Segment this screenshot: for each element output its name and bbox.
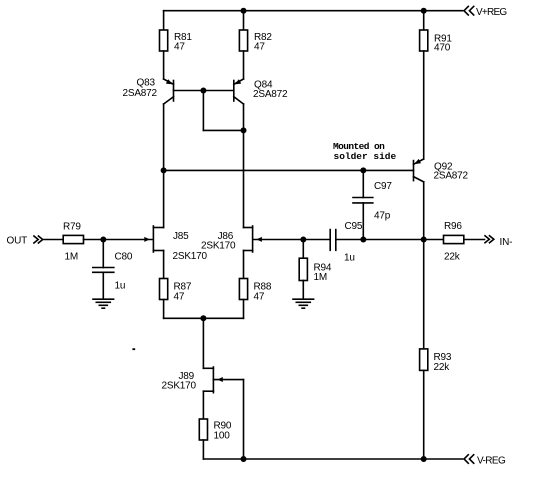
svg-text:22k: 22k <box>444 252 461 263</box>
svg-text:47p: 47p <box>374 211 391 222</box>
svg-text:C80: C80 <box>115 252 133 263</box>
svg-text:470: 470 <box>434 43 451 54</box>
svg-text:V-REG: V-REG <box>477 456 506 467</box>
svg-text:47: 47 <box>254 292 265 303</box>
svg-text:2SA872: 2SA872 <box>123 88 158 99</box>
svg-text:C95: C95 <box>345 221 363 232</box>
svg-text:1M: 1M <box>65 252 79 263</box>
svg-text:2SA872: 2SA872 <box>253 89 288 100</box>
svg-text:solder side: solder side <box>334 151 397 162</box>
svg-text:1u: 1u <box>344 253 355 264</box>
svg-text:IN-: IN- <box>500 237 513 248</box>
svg-text:1u: 1u <box>115 281 126 292</box>
svg-text:Q83: Q83 <box>137 78 156 89</box>
svg-text:R96: R96 <box>444 221 462 232</box>
svg-text:47: 47 <box>174 42 185 53</box>
svg-text:47: 47 <box>174 292 185 303</box>
svg-text:2SK170: 2SK170 <box>162 381 197 392</box>
svg-text:2SK170: 2SK170 <box>201 241 236 252</box>
svg-text:1M: 1M <box>314 272 328 283</box>
svg-text:J85: J85 <box>173 231 189 242</box>
svg-text:22k: 22k <box>434 362 451 373</box>
svg-text:100: 100 <box>214 431 231 442</box>
svg-text:2SA872: 2SA872 <box>434 171 469 182</box>
svg-text:R79: R79 <box>63 222 81 233</box>
svg-text:OUT: OUT <box>7 236 28 247</box>
svg-text:V+REG: V+REG <box>476 7 507 18</box>
svg-text:C97: C97 <box>374 181 392 192</box>
svg-text:47: 47 <box>254 42 265 53</box>
svg-text:2SK170: 2SK170 <box>173 251 208 262</box>
